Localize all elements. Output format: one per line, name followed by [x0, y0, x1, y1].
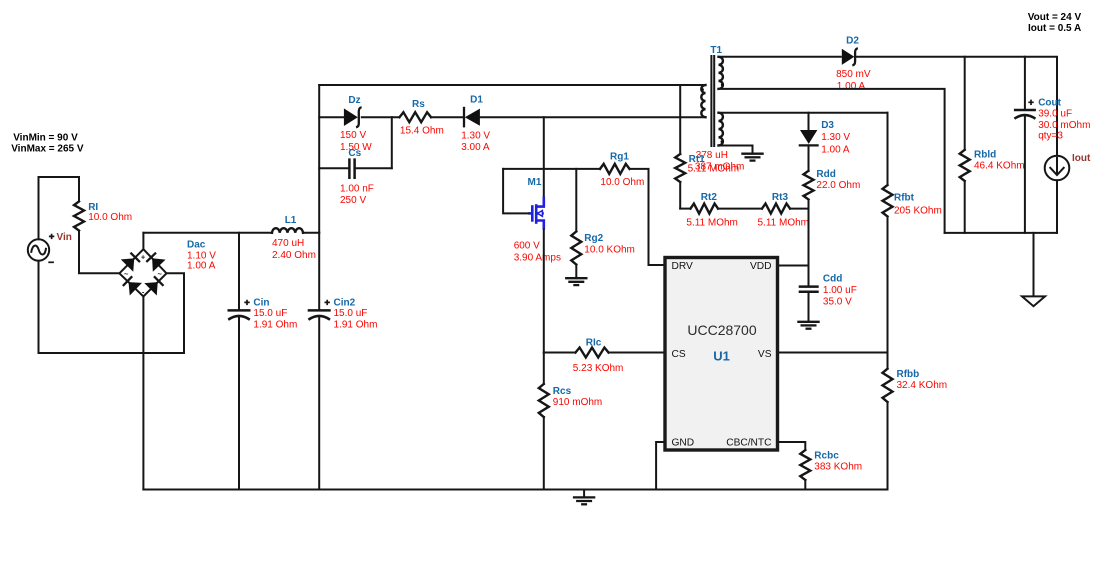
- transformer T1 primary winding: [701, 85, 705, 117]
- capacitor Cin2: [318, 233, 320, 490]
- svg-text:35.0 V: 35.0 V: [823, 296, 852, 307]
- svg-text:Rt2: Rt2: [701, 192, 718, 203]
- svg-text:15.0 uF: 15.0 uF: [253, 308, 287, 319]
- svg-text:Rg1: Rg1: [610, 151, 629, 162]
- wire bridge top: [142, 233, 144, 249]
- svg-text:Vin: Vin: [57, 232, 72, 243]
- ground Rg2: [575, 277, 577, 279]
- svg-text:Dac: Dac: [187, 240, 206, 251]
- wire CS row left: [544, 352, 576, 354]
- svg-text:Dz: Dz: [348, 95, 360, 106]
- wire L1 to Cin2 node: [303, 232, 319, 234]
- svg-text:15.0 uF: 15.0 uF: [334, 308, 368, 319]
- wire Rt2 to Rt3: [718, 208, 762, 210]
- resistor Rfbb: [887, 353, 889, 369]
- resistor Rt2: [680, 208, 690, 210]
- resistor RIc: [576, 348, 609, 358]
- wire clamp mid vertical: [391, 117, 393, 168]
- wire aux bottom: [719, 145, 753, 147]
- svg-text:RI: RI: [88, 202, 98, 213]
- wire switch node: [480, 116, 706, 118]
- wire Rs to D1: [431, 116, 463, 118]
- capacitor Cs: [319, 167, 392, 169]
- svg-text:Cin2: Cin2: [334, 297, 356, 308]
- ground aux: [752, 146, 754, 154]
- svg-text:910 mOhm: 910 mOhm: [553, 397, 602, 408]
- svg-text:VDD: VDD: [750, 261, 772, 272]
- wire AC return: [39, 273, 185, 353]
- svg-text:CBC/NTC: CBC/NTC: [726, 438, 771, 449]
- svg-text:D3: D3: [821, 120, 834, 131]
- ground output: [1033, 233, 1035, 297]
- svg-text:850 mV: 850 mV: [836, 69, 871, 80]
- wire RI to bridge: [79, 231, 119, 274]
- wire VS row: [779, 352, 888, 354]
- svg-text:Rcbc: Rcbc: [814, 450, 839, 461]
- svg-text:Rfbt: Rfbt: [894, 193, 915, 204]
- diode D2: [842, 49, 855, 65]
- svg-text:M1: M1: [528, 177, 542, 188]
- wire RIc to CS pin: [609, 352, 665, 354]
- svg-text:1.30 V: 1.30 V: [461, 131, 490, 142]
- svg-text:3.00 A: 3.00 A: [461, 142, 490, 153]
- ground Cdd: [808, 292, 810, 322]
- wire bottom rail: [143, 489, 887, 491]
- svg-text:1.00 A: 1.00 A: [187, 261, 216, 272]
- svg-text:1.00 A: 1.00 A: [821, 144, 850, 155]
- svg-text:5.11 MOhm: 5.11 MOhm: [686, 218, 738, 229]
- svg-text:U1: U1: [713, 349, 730, 364]
- svg-text:5.11 MOhm: 5.11 MOhm: [758, 218, 810, 229]
- resistor Rg2: [575, 169, 577, 232]
- resistor Rt3: [762, 204, 790, 214]
- svg-text:10.0 Ohm: 10.0 Ohm: [88, 212, 132, 223]
- svg-text:1.00 nF: 1.00 nF: [340, 183, 374, 194]
- resistor Rcbc: [779, 442, 806, 450]
- svg-text:Rfbb: Rfbb: [897, 369, 920, 380]
- wire Vin bottom: [38, 261, 40, 353]
- svg-text:1.91 Ohm: 1.91 Ohm: [253, 320, 297, 331]
- wire secondary top: [719, 56, 841, 58]
- svg-text:5.11 MOhm: 5.11 MOhm: [688, 163, 740, 174]
- svg-text:46.4 KOhm: 46.4 KOhm: [974, 160, 1025, 171]
- svg-text:Rbld: Rbld: [974, 150, 996, 161]
- wire output bottom rail: [945, 232, 1057, 234]
- resistor Rfbt: [887, 113, 889, 185]
- svg-text:CS: CS: [672, 349, 686, 360]
- svg-text:1.00 uF: 1.00 uF: [823, 285, 857, 296]
- svg-text:Iout: Iout: [1072, 153, 1091, 164]
- svg-text:250 V: 250 V: [340, 195, 366, 206]
- svg-text:150 V: 150 V: [340, 130, 366, 141]
- resistor Rt1: [679, 85, 681, 154]
- svg-text:Cdd: Cdd: [823, 274, 842, 285]
- bridge rectifier Dac: [119, 249, 166, 296]
- resistor Rcs: [543, 353, 545, 385]
- svg-text:15.4 Ohm: 15.4 Ohm: [400, 125, 444, 136]
- wire bridge bottom to rail: [142, 297, 144, 490]
- wire GND pin: [656, 442, 664, 490]
- wire top rail to primary: [319, 84, 705, 86]
- svg-text:Rdd: Rdd: [816, 169, 835, 180]
- svg-text:Vout = 24 V: Vout = 24 V: [1028, 12, 1082, 23]
- svg-text:2.40 Ohm: 2.40 Ohm: [272, 250, 316, 261]
- svg-text:D2: D2: [846, 36, 859, 47]
- transformer T1 secondary winding: [719, 57, 723, 89]
- svg-text:1.00 A: 1.00 A: [837, 81, 866, 92]
- transistor M1: [528, 197, 543, 230]
- wire M1 source: [543, 230, 545, 353]
- svg-text:1.30 V: 1.30 V: [821, 132, 850, 143]
- svg-text:470 uH: 470 uH: [272, 238, 304, 249]
- svg-text:Rt3: Rt3: [772, 192, 789, 203]
- transformer T1 aux winding: [719, 113, 723, 146]
- svg-text:RIc: RIc: [586, 338, 602, 349]
- capacitor Cin: [238, 233, 240, 490]
- wire Dz to Rs: [362, 116, 400, 118]
- svg-text:39.0 uF: 39.0 uF: [1038, 109, 1072, 120]
- svg-text:Cs: Cs: [348, 148, 361, 159]
- svg-text:VinMin = 90 V: VinMin = 90 V: [13, 133, 78, 144]
- source Vin: [28, 239, 49, 260]
- svg-text:10.0 KOhm: 10.0 KOhm: [584, 244, 635, 255]
- resistor Rg1: [600, 164, 630, 174]
- svg-text:~: ~: [124, 270, 129, 279]
- wire M1 drain: [543, 117, 545, 196]
- svg-text:L1: L1: [285, 215, 297, 226]
- svg-text:32.4 KOhm: 32.4 KOhm: [897, 380, 948, 391]
- svg-text:383 KOhm: 383 KOhm: [814, 461, 862, 472]
- svg-text:UCC28700: UCC28700: [687, 322, 756, 338]
- svg-text:VinMax = 265 V: VinMax = 265 V: [11, 143, 84, 154]
- wire snubber left vertical: [318, 85, 320, 233]
- svg-text:Cout: Cout: [1038, 98, 1061, 109]
- resistor RI: [74, 201, 84, 230]
- wire secondary bottom: [719, 89, 945, 233]
- svg-text:3.90 Amps: 3.90 Amps: [514, 252, 561, 263]
- wire Rg1 to DRV drop: [630, 169, 665, 265]
- svg-text:+: +: [141, 253, 146, 262]
- svg-text:~: ~: [158, 270, 163, 279]
- resistor Rbld: [964, 57, 966, 150]
- capacitor Cout: [1024, 57, 1026, 233]
- wire VDD vertical: [808, 200, 810, 286]
- transformer T1 core: [711, 56, 714, 146]
- svg-text:Rcs: Rcs: [553, 386, 572, 397]
- svg-text:T1: T1: [710, 45, 722, 56]
- source Iout: [1045, 156, 1070, 181]
- ground primary: [583, 490, 585, 498]
- diode D1: [463, 107, 465, 128]
- diode D3: [808, 113, 810, 130]
- wire VDD pin: [779, 265, 809, 267]
- wire gate left drop: [503, 169, 528, 214]
- op-amp U1 UCC28700: [665, 258, 778, 451]
- wire aux top rail: [719, 112, 888, 114]
- svg-text:5.23 KOhm: 5.23 KOhm: [573, 363, 624, 374]
- svg-text:22.0 Ohm: 22.0 Ohm: [816, 180, 860, 191]
- svg-text:30.0 mOhm: 30.0 mOhm: [1038, 120, 1090, 131]
- svg-text:205 KOhm: 205 KOhm: [894, 205, 942, 216]
- zener Dz: [319, 116, 344, 118]
- svg-text:DRV: DRV: [672, 261, 694, 272]
- svg-text:Cin: Cin: [253, 297, 269, 308]
- capacitor Cdd: [799, 287, 819, 292]
- svg-text:Rs: Rs: [412, 99, 425, 110]
- wire bulk rail: [143, 232, 272, 234]
- wire gate row: [503, 168, 600, 170]
- inductor L1: [272, 228, 303, 233]
- svg-text:10.0 Ohm: 10.0 Ohm: [600, 177, 644, 188]
- svg-text:qty=3: qty=3: [1038, 131, 1063, 142]
- resistor Rdd: [808, 145, 810, 170]
- svg-text:GND: GND: [672, 438, 695, 449]
- svg-text:600 V: 600 V: [514, 241, 540, 252]
- svg-text:D1: D1: [470, 95, 483, 106]
- wire Vin top loop: [39, 177, 80, 239]
- svg-text:Iout = 0.5 A: Iout = 0.5 A: [1028, 23, 1081, 34]
- svg-text:VS: VS: [758, 349, 772, 360]
- svg-text:1.91 Ohm: 1.91 Ohm: [334, 320, 378, 331]
- resistor Rs: [400, 112, 432, 122]
- svg-text:Rg2: Rg2: [584, 233, 603, 244]
- wire D2 to output: [856, 57, 1057, 156]
